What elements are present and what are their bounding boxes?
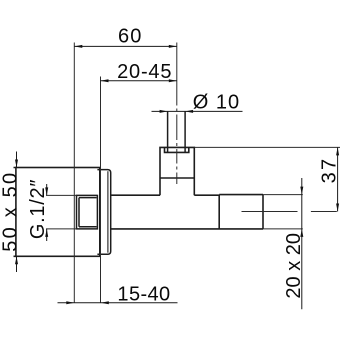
dimension line 60 xyxy=(74,45,177,47)
riser centerline dash-dot xyxy=(176,81,178,184)
svg-text:Ø 10: Ø 10 xyxy=(193,92,240,114)
arrowheads 60 xyxy=(74,45,82,48)
extension line wall face (20-45 / 15-40) xyxy=(100,77,102,303)
dimension line diameter 10 xyxy=(152,110,243,112)
dimension line 20x20 xyxy=(301,178,303,309)
dimension line 50x50 xyxy=(16,152,18,273)
extension lines thread G1/2 xyxy=(46,194,77,196)
svg-text:G.1/2″: G.1/2″ xyxy=(27,179,49,239)
svg-text:60: 60 xyxy=(118,26,143,48)
svg-text:37: 37 xyxy=(318,157,340,184)
dimension line 37 xyxy=(337,147,339,211)
svg-text:50 x 50: 50 x 50 xyxy=(0,171,22,252)
riser port block xyxy=(160,147,194,195)
arrowheads 37 xyxy=(336,147,339,155)
pipe socket notch xyxy=(165,147,189,152)
valve body tube xyxy=(111,195,263,229)
arrowheads G1/2 xyxy=(45,187,48,195)
wall plate 50x50 front view xyxy=(14,168,100,257)
arrowheads 50x50 xyxy=(15,160,18,168)
riser pipe stub (diameter 10) xyxy=(168,111,186,152)
dimension line 15-40 xyxy=(58,302,178,304)
extension line left (60 / 15-40) xyxy=(73,43,75,303)
extension lines outlet 20x20 xyxy=(263,194,303,196)
port top extension to dim 37 xyxy=(194,146,340,148)
arrowheads 15-40 xyxy=(66,301,74,304)
body centerline dash-dot xyxy=(242,211,337,213)
outlet head 20x20 side view xyxy=(219,195,263,229)
arrowheads 20-45 xyxy=(101,79,109,82)
arrowheads 20x20 xyxy=(300,187,303,195)
svg-text:15-40: 15-40 xyxy=(117,284,170,306)
svg-text:20-45: 20-45 xyxy=(117,61,172,83)
dimension line G1/2 xyxy=(46,184,48,241)
threaded inlet G1/2 side view xyxy=(77,195,98,230)
riser centerline extension xyxy=(176,43,178,82)
arrowheads diameter 10 xyxy=(160,110,168,113)
svg-text:20 x 20: 20 x 20 xyxy=(283,233,305,299)
flange escutcheon side view xyxy=(97,170,110,255)
dimension line 20-45 xyxy=(101,80,177,82)
